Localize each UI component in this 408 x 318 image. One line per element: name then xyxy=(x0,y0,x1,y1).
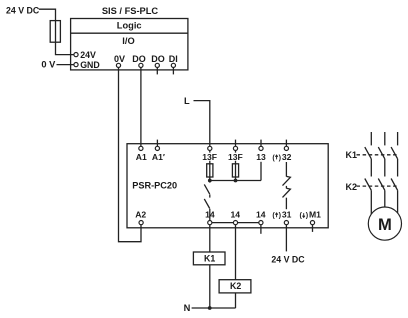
svg-text:A2: A2 xyxy=(135,210,146,220)
svg-text:K1: K1 xyxy=(346,150,358,160)
svg-text:DO: DO xyxy=(151,54,165,64)
svg-text:A1: A1 xyxy=(136,152,147,162)
svg-text:SIS / FS-PLC: SIS / FS-PLC xyxy=(102,6,159,16)
svg-text:31: 31 xyxy=(282,210,292,220)
svg-text:Logic: Logic xyxy=(117,21,142,31)
svg-text:K1: K1 xyxy=(204,254,215,264)
svg-text:GND: GND xyxy=(80,60,100,70)
svg-text:24 V DC: 24 V DC xyxy=(271,254,305,264)
svg-text:0 V: 0 V xyxy=(41,60,56,70)
svg-text:DO: DO xyxy=(132,54,146,64)
svg-text:I/O: I/O xyxy=(122,36,134,46)
svg-text:13F: 13F xyxy=(202,152,217,162)
svg-text:K2: K2 xyxy=(230,281,241,291)
svg-text:A1′: A1′ xyxy=(152,152,165,162)
svg-text:13: 13 xyxy=(256,152,266,162)
svg-text:14: 14 xyxy=(256,210,266,220)
svg-text:0V: 0V xyxy=(114,54,125,64)
svg-text:32: 32 xyxy=(282,152,292,162)
svg-text:L: L xyxy=(184,96,190,106)
svg-text:14: 14 xyxy=(231,210,241,220)
svg-text:M: M xyxy=(378,215,392,234)
svg-text:13F: 13F xyxy=(228,152,243,162)
svg-text:24 V DC: 24 V DC xyxy=(6,6,40,16)
svg-text:N: N xyxy=(184,303,191,313)
svg-text:K2: K2 xyxy=(346,182,358,192)
svg-text:24V: 24V xyxy=(80,50,96,60)
svg-text:PSR-PC20: PSR-PC20 xyxy=(132,181,177,191)
svg-text:DI: DI xyxy=(169,54,178,64)
svg-text:14: 14 xyxy=(205,210,215,220)
svg-text:M1: M1 xyxy=(309,210,321,220)
